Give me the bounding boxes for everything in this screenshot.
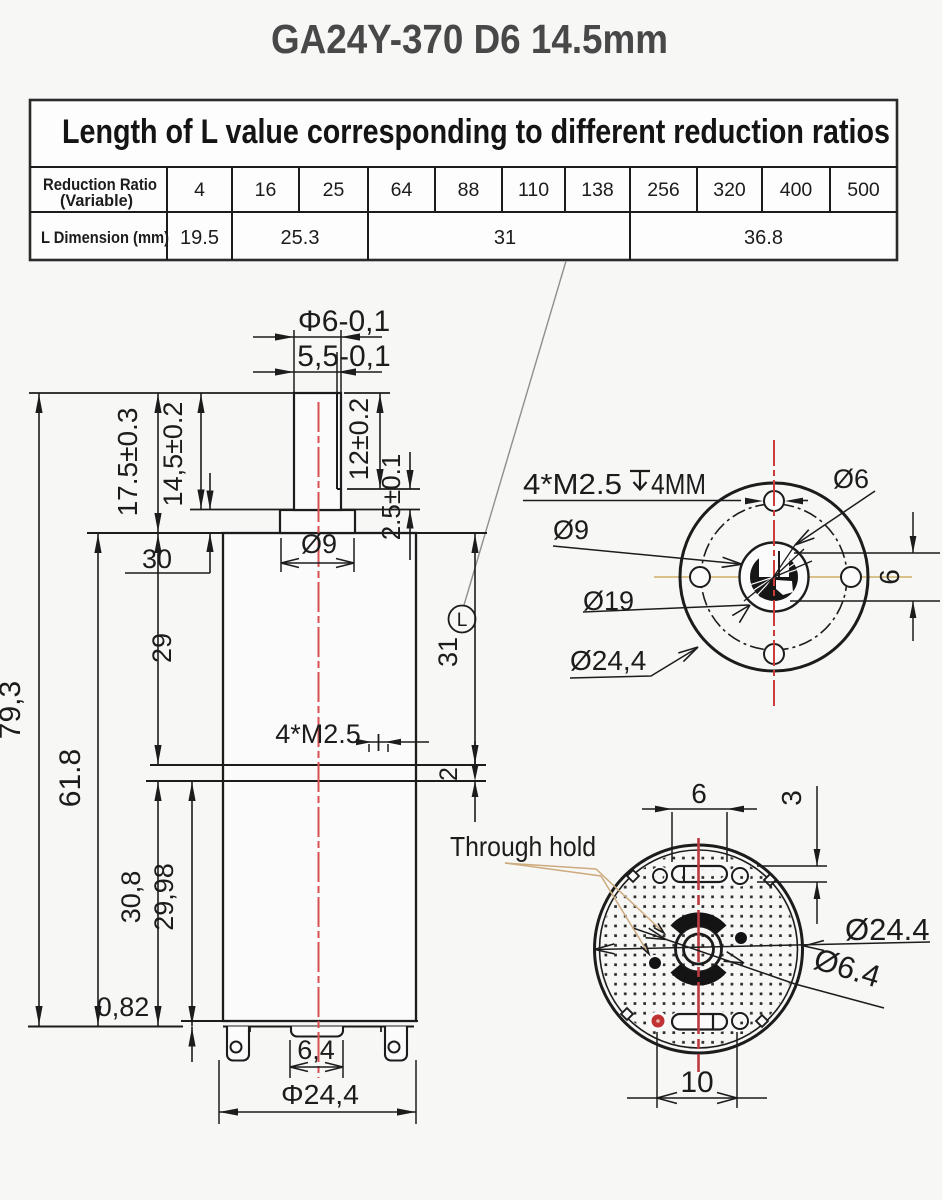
svg-text:138: 138	[581, 179, 614, 201]
svg-text:31: 31	[494, 227, 516, 249]
svg-text:16: 16	[255, 179, 277, 201]
front view horizontal centerline	[654, 576, 912, 578]
rear rim notches (4 diamonds)	[627, 870, 639, 882]
svg-text:5,5-0,1: 5,5-0,1	[297, 340, 390, 373]
svg-text:6: 6	[874, 569, 905, 585]
svg-text:10: 10	[680, 1066, 713, 1099]
bottom lip	[223, 1026, 414, 1028]
svg-text:500: 500	[847, 179, 880, 201]
extension line gearbox bottom	[150, 764, 486, 766]
svg-text:4: 4	[194, 179, 205, 201]
svg-text:30,8: 30,8	[116, 871, 146, 924]
svg-text:19.5: 19.5	[180, 227, 219, 249]
front view bolt circle dia19	[701, 504, 847, 650]
svg-text:29: 29	[147, 633, 177, 663]
svg-text:25: 25	[323, 179, 345, 201]
collar boss	[280, 510, 355, 533]
front view four M2.5 screw holes	[764, 491, 784, 511]
svg-text:GA24Y-370 D6 14.5mm: GA24Y-370 D6 14.5mm	[271, 16, 668, 62]
svg-text:2: 2	[435, 767, 463, 781]
svg-text:6,4: 6,4	[297, 1035, 335, 1065]
rear center bearing circles and arcs	[676, 926, 722, 972]
svg-text:L Dimension (mm): L Dimension (mm)	[41, 229, 169, 247]
right terminal tab	[385, 1027, 407, 1061]
leader line from table to L label	[464, 261, 566, 605]
extension line flat step	[347, 488, 420, 490]
svg-text:Length of L value correspondin: Length of L value corresponding to diffe…	[62, 113, 890, 151]
svg-text:17.5±0.3: 17.5±0.3	[112, 408, 143, 517]
svg-text:4*M2.5: 4*M2.5	[275, 719, 361, 749]
gearbox-motor joint lines	[223, 764, 416, 766]
svg-text:61.8: 61.8	[54, 749, 87, 807]
extension line motor bottom	[181, 1020, 418, 1022]
svg-text:Ø6.4: Ø6.4	[810, 941, 885, 994]
table border and grid	[30, 100, 897, 260]
svg-text:110: 110	[518, 179, 549, 201]
svg-text:0,82: 0,82	[97, 992, 150, 1022]
output shaft	[294, 393, 341, 510]
svg-text:4*M2.5: 4*M2.5	[523, 469, 622, 501]
svg-text:6: 6	[691, 778, 707, 809]
svg-text:31: 31	[433, 637, 463, 667]
svg-text:12±0.2: 12±0.2	[344, 398, 374, 480]
rear black dot right	[733, 930, 749, 946]
svg-text:64: 64	[391, 179, 413, 201]
rear bottom-right hole	[732, 1013, 748, 1029]
extension line motor top	[146, 780, 486, 782]
rear bottom vent slot	[672, 1014, 727, 1030]
svg-text:Through hold: Through hold	[450, 831, 596, 862]
extension line collar top	[190, 509, 420, 511]
rear top-left hole	[653, 869, 667, 883]
left terminal tab	[227, 1027, 249, 1061]
svg-text:Φ6-0,1: Φ6-0,1	[298, 305, 390, 338]
svg-text:(Variable): (Variable)	[60, 192, 133, 210]
extension line shaft top	[29, 392, 294, 394]
svg-text:Ø9: Ø9	[553, 515, 589, 545]
svg-text:14,5±0.2: 14,5±0.2	[158, 402, 188, 507]
svg-text:36.8: 36.8	[744, 227, 783, 249]
svg-text:Ø6: Ø6	[833, 464, 869, 494]
side view centerline	[318, 402, 320, 1078]
rear view vertical centerline	[697, 838, 700, 1072]
svg-text:25.3: 25.3	[281, 227, 320, 249]
svg-text:4MM: 4MM	[651, 469, 706, 501]
rear black dot lower-left	[647, 955, 663, 971]
svg-text:88: 88	[458, 179, 480, 201]
front view shaft with flat (black)	[750, 553, 798, 601]
svg-text:29,98: 29,98	[149, 863, 179, 931]
extension line tab plane	[28, 1026, 183, 1028]
svg-text:2.5±0.1: 2.5±0.1	[376, 454, 406, 541]
extension line gearbox top	[87, 532, 487, 534]
rear bearing boss	[291, 1027, 343, 1037]
svg-text:320: 320	[713, 179, 746, 201]
front view outer circle	[680, 483, 868, 671]
rear top vent slot	[672, 866, 727, 882]
svg-text:400: 400	[780, 179, 813, 201]
rear view inner rim circle	[600, 850, 798, 1048]
front view vertical centerline	[773, 440, 775, 709]
svg-text:Ø24,4: Ø24,4	[570, 645, 646, 676]
front view fan lines	[774, 549, 804, 577]
rear view outer circle	[595, 845, 803, 1053]
svg-text:L: L	[457, 610, 468, 631]
svg-text:79,3: 79,3	[0, 681, 27, 739]
rear through hole red marker	[649, 1012, 668, 1031]
svg-text:3: 3	[776, 790, 807, 806]
front view boss circle dia9	[740, 543, 809, 612]
tab bend ticks	[249, 1027, 251, 1033]
svg-text:Ø9: Ø9	[301, 529, 337, 559]
svg-text:256: 256	[647, 179, 680, 201]
rear top-right hole	[732, 868, 748, 884]
rear view knurled face (dotted)	[601, 852, 796, 1047]
shaft flat line	[336, 393, 338, 489]
svg-text:Φ24,4: Φ24,4	[281, 1079, 359, 1110]
motor body	[223, 533, 416, 1021]
